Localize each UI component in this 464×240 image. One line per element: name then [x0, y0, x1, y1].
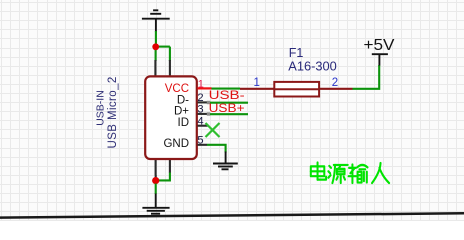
- pin MP3 (bottom-left shield pin): [155, 159, 157, 176]
- power +5V symbol: [372, 54, 388, 65]
- svg-text:1: 1: [254, 77, 260, 89]
- char 源: [328, 165, 347, 183]
- svg-text:5: 5: [197, 135, 203, 147]
- fuse pin 1 (dark red): [240, 88, 275, 90]
- wire (pin1 to fuse, green part): [212, 88, 241, 90]
- pin 5 line: [198, 144, 208, 146]
- junction dot (top): [152, 43, 159, 50]
- svg-text:USB Micro_2: USB Micro_2: [107, 76, 119, 148]
- svg-text:USB+: USB+: [209, 103, 245, 115]
- wire (down to right top pin): [169, 47, 171, 61]
- pin 3 line: [198, 113, 208, 115]
- svg-text:2: 2: [332, 77, 338, 89]
- char 电: [311, 162, 326, 179]
- wire (junction to bottom ground): [155, 184, 157, 195]
- svg-text:4: 4: [197, 116, 203, 128]
- pin MP2 (top-right shield pin): [169, 60, 171, 77]
- wire (junction down to left top pin): [155, 47, 157, 61]
- connector body USB Micro_2: [145, 76, 197, 159]
- ground GND3 (pin5): [213, 152, 238, 170]
- char 输: [349, 164, 368, 183]
- wire (bottom-right pin down to junction row): [156, 173, 170, 181]
- sheet edge line (bottom): [0, 213, 464, 217]
- wire (fuse to +5V corner): [353, 65, 380, 89]
- ground GND1 (top): [142, 10, 170, 32]
- pin 4 line: [198, 125, 208, 127]
- svg-text:1: 1: [198, 78, 204, 90]
- svg-text:D-: D-: [177, 94, 189, 106]
- fuse F1 body: [274, 82, 319, 97]
- svg-text:2: 2: [197, 92, 203, 104]
- pin MP1 (top-left shield pin): [154, 60, 156, 77]
- svg-text:GND: GND: [163, 138, 189, 150]
- fuse pin 2 (dark red): [319, 88, 352, 90]
- pin 3 end dot: [207, 112, 210, 115]
- wire USB+: [210, 113, 248, 115]
- svg-text:A16-300: A16-300: [288, 59, 337, 73]
- svg-text:D+: D+: [174, 106, 189, 118]
- wire (junction right): [156, 46, 170, 48]
- text 电源输入 (drawn strokes): [311, 162, 389, 183]
- svg-text:3: 3: [197, 104, 203, 116]
- wire (bottom-left pin to junction): [155, 175, 157, 181]
- svg-text:+5V: +5V: [364, 37, 395, 54]
- pin 2 end dot: [207, 101, 210, 104]
- pin 2 line: [198, 101, 208, 103]
- no-connect X on pin 4: [206, 123, 220, 137]
- wire (top ground to junction): [155, 31, 157, 47]
- pin 1 line (red): [198, 87, 212, 89]
- svg-text:USB-: USB-: [209, 90, 245, 102]
- char 入: [372, 163, 389, 183]
- svg-text:VCC: VCC: [165, 83, 189, 95]
- wire (pin5 to ground): [207, 145, 226, 153]
- junction dot (bottom): [152, 177, 159, 184]
- wire USB-: [210, 102, 248, 104]
- pin MP4 (bottom-right shield pin): [169, 159, 171, 173]
- fuse F1 mid line: [274, 88, 319, 90]
- ground GND2 (bottom): [142, 194, 169, 214]
- svg-text:ID: ID: [178, 117, 190, 129]
- svg-text:USB-IN: USB-IN: [95, 90, 107, 126]
- svg-text:F1: F1: [289, 46, 304, 60]
